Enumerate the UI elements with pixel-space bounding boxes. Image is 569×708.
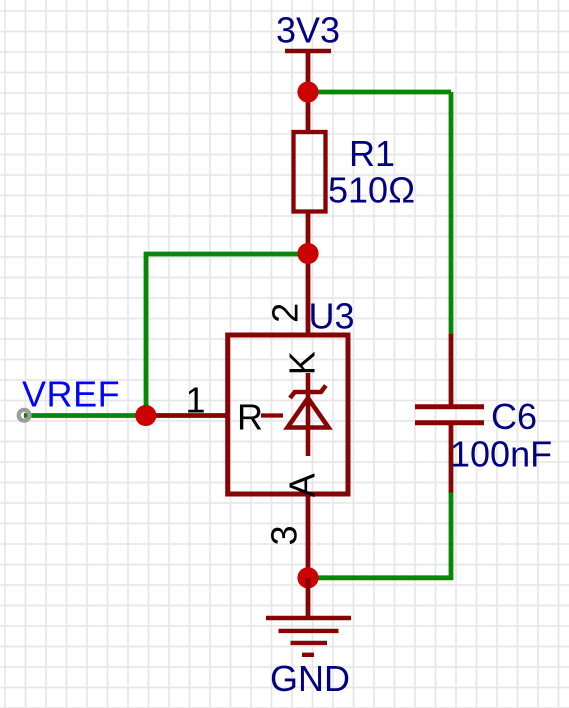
power flag 3V3 bar xyxy=(285,49,331,54)
diode cathode bar xyxy=(290,386,326,399)
wire pin 3 to ground node xyxy=(306,496,311,578)
wire pin 1 xyxy=(146,413,227,418)
wire green C6 branch top vertical xyxy=(449,92,454,335)
svg-text:A: A xyxy=(282,473,323,497)
wire green 3V3 node to C6 branch xyxy=(308,90,451,95)
C6 bottom pin xyxy=(449,424,454,493)
diode triangle xyxy=(288,398,329,428)
wire 3V3 stem to R1 top xyxy=(306,51,311,131)
op-amp U3 body box xyxy=(228,335,348,494)
port VREF open pin xyxy=(19,410,30,421)
R internal stub xyxy=(261,413,283,417)
svg-text:U3: U3 xyxy=(309,295,355,336)
svg-text:C6: C6 xyxy=(491,396,537,437)
wire green C6 branch bottom xyxy=(308,493,451,578)
svg-text:R1: R1 xyxy=(349,133,395,174)
wire green VREF xyxy=(24,413,146,418)
junction at 3V3 node xyxy=(297,81,318,102)
svg-text:K: K xyxy=(282,351,323,375)
junction below R1 xyxy=(297,243,318,264)
C6 top pin xyxy=(449,334,454,405)
capacitor C6 top plate xyxy=(415,404,484,409)
svg-text:R: R xyxy=(237,397,263,438)
resistor R1 xyxy=(294,132,326,212)
svg-text:VREF: VREF xyxy=(22,373,120,414)
svg-text:2: 2 xyxy=(265,303,306,323)
svg-text:GND: GND xyxy=(270,658,350,699)
svg-text:510Ω: 510Ω xyxy=(328,169,415,210)
ground symbol xyxy=(266,618,351,655)
capacitor C6 bottom plate xyxy=(415,420,484,425)
wire ground stem xyxy=(306,578,311,618)
junction VREF node xyxy=(135,405,156,426)
svg-text:3: 3 xyxy=(264,525,305,545)
svg-text:3V3: 3V3 xyxy=(276,10,340,51)
junction ground node xyxy=(297,567,318,588)
svg-text:100nF: 100nF xyxy=(450,434,552,475)
wire green feedback horizontal xyxy=(146,254,308,416)
wire R1 bottom to U3 pin 2 xyxy=(306,212,311,333)
diode vertical lead xyxy=(306,373,311,456)
